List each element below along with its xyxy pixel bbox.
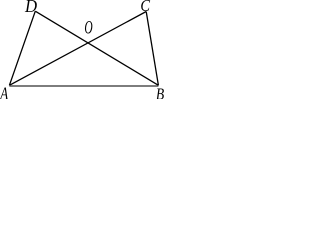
segment CB <box>146 12 158 86</box>
svg-text:O: O <box>84 18 92 38</box>
svg-text:C: C <box>140 0 150 15</box>
svg-text:D: D <box>24 0 37 16</box>
segment AC <box>9 12 146 86</box>
segment DB <box>35 11 158 85</box>
segment AD <box>9 11 35 85</box>
segment AB (base) <box>9 85 158 87</box>
svg-text:B: B <box>156 85 165 99</box>
svg-text:A: A <box>0 85 9 99</box>
